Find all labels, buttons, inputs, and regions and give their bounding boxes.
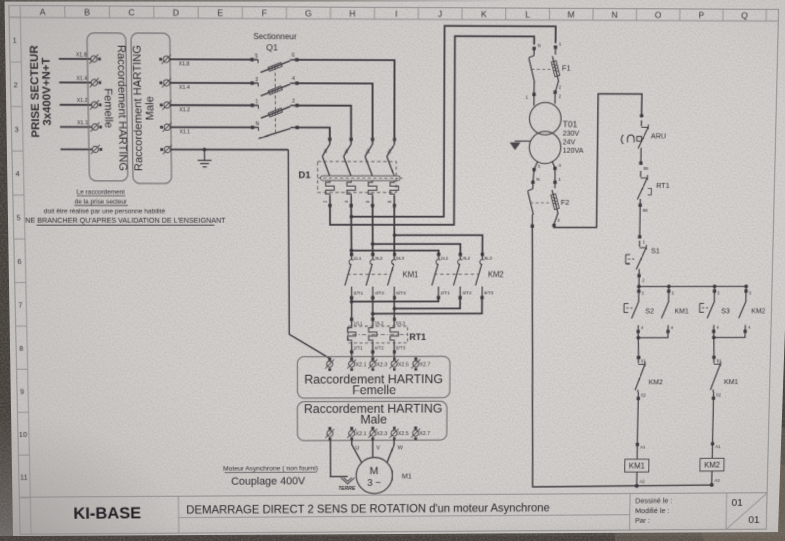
- svg-text:X1.4: X1.4: [76, 76, 87, 82]
- svg-text:X1.2: X1.2: [179, 107, 190, 113]
- wire male box to Q1 pole 4: [170, 126, 252, 128]
- svg-text:1: 1: [526, 95, 529, 101]
- contactor KM1 pole 1: [350, 253, 353, 256]
- ground TERRE symbol: [341, 478, 355, 484]
- svg-text:5/L3: 5/L3: [396, 321, 405, 327]
- contact KM2 NC interlock: [637, 356, 640, 359]
- svg-text:X2.1: X2.1: [355, 362, 366, 368]
- wire control rail branches: [637, 285, 641, 289]
- wire KM2 2/T1 join KM1 pole1: [350, 300, 354, 304]
- svg-text:X2.3: X2.3: [376, 432, 387, 438]
- svg-text:6/T3: 6/T3: [396, 290, 406, 296]
- svg-text:2/T1: 2/T1: [353, 346, 363, 352]
- svg-text:A2: A2: [639, 479, 645, 485]
- svg-text:B: B: [84, 7, 90, 17]
- svg-text:1: 1: [559, 42, 562, 48]
- svg-text:A1: A1: [715, 444, 721, 450]
- wire S2/KM1 merge: [638, 331, 668, 337]
- connector X2 HARTING femelle: [297, 356, 450, 398]
- contactor KM1 pole 3: [393, 253, 396, 256]
- breaker D1 pole 3 thermal element and output: [368, 181, 377, 196]
- svg-text:6: 6: [365, 200, 371, 203]
- contactor KM2 pole 3: [481, 253, 484, 256]
- wire Q1 pole N output to D1: [297, 127, 330, 137]
- wire V phase to motor: [372, 439, 374, 458]
- svg-text:2: 2: [558, 94, 561, 100]
- wire PE down-run to bottom connector: [288, 150, 329, 360]
- svg-text:3: 3: [717, 291, 720, 296]
- svg-text:2: 2: [13, 80, 17, 89]
- svg-text:DEMARRAGE DIRECT 2 SENS DE ROT: DEMARRAGE DIRECT 2 SENS DE ROTATION d'un…: [186, 501, 550, 516]
- svg-text:1L1: 1L1: [354, 256, 362, 262]
- svg-text:4: 4: [15, 169, 20, 178]
- svg-text:NE BRANCHER QU'APRES VALIDATIO: NE BRANCHER QU'APRES VALIDATION DE L'ENS…: [25, 216, 226, 225]
- wire KM1 output 340 to RT1: [351, 298, 353, 320]
- svg-text:Male: Male: [144, 96, 156, 120]
- svg-text:4: 4: [671, 325, 674, 330]
- coil KM1: [636, 398, 639, 444]
- contact KM1 aux hold: [668, 291, 670, 301]
- breaker D1 pole 1 input: [328, 137, 331, 140]
- svg-text:M: M: [568, 9, 575, 19]
- connector X1 HARTING femelle: [87, 33, 128, 181]
- svg-text:X1.4: X1.4: [179, 85, 190, 91]
- svg-text:ARU: ARU: [651, 131, 666, 140]
- svg-text:X2.7: X2.7: [419, 431, 430, 437]
- wire transformer secondary: [534, 162, 537, 169]
- svg-text:10: 10: [19, 430, 27, 439]
- svg-text:4: 4: [748, 325, 751, 330]
- svg-text:4: 4: [716, 325, 719, 330]
- wire left rail N: [530, 226, 719, 487]
- connector X1 HARTING male: [131, 33, 172, 184]
- node title block: [19, 493, 768, 497]
- contactor KM2 pole 1: [437, 253, 440, 256]
- svg-text:N: N: [611, 10, 617, 20]
- svg-text:6: 6: [17, 257, 21, 266]
- wire phase C feed KM1/KM2: [393, 206, 395, 236]
- svg-text:9: 9: [20, 387, 24, 396]
- button S2 start KM1: [638, 291, 640, 301]
- svg-text:Q: Q: [741, 10, 748, 20]
- svg-text:P: P: [698, 10, 704, 20]
- svg-text:KM1: KM1: [629, 462, 645, 471]
- svg-text:62: 62: [641, 393, 646, 398]
- contact KM2 aux hold: [745, 291, 747, 301]
- svg-text:KM1: KM1: [724, 377, 738, 386]
- svg-text:2: 2: [642, 278, 645, 284]
- svg-text:E: E: [217, 8, 223, 18]
- svg-text:X2.5: X2.5: [398, 431, 409, 437]
- wire Q1 pole 5 output to D1: [297, 60, 395, 138]
- svg-text:4: 4: [641, 325, 644, 330]
- svg-text:F1: F1: [562, 64, 571, 73]
- svg-text:3/L2: 3/L2: [375, 321, 384, 327]
- contact KM1 NC interlock: [712, 356, 715, 359]
- svg-text:S3: S3: [721, 306, 730, 315]
- wire mains lead 2: [59, 81, 91, 83]
- svg-text:W: W: [397, 445, 403, 451]
- svg-text:U: U: [355, 446, 359, 452]
- svg-text:de la prise secteur: de la prise secteur: [75, 199, 128, 206]
- svg-text:2: 2: [559, 85, 562, 91]
- transformer T01: [533, 94, 535, 105]
- svg-text:1/L1: 1/L1: [353, 321, 362, 327]
- svg-text:KM2: KM2: [704, 461, 720, 470]
- switch Q1 pole 3: [250, 81, 253, 84]
- breaker D1 pole 2 thermal element and output: [347, 181, 356, 196]
- relay RT1 dashed outline: [348, 326, 407, 343]
- svg-text:Sectionneur: Sectionneur: [253, 31, 297, 41]
- svg-text:Dessiné le :: Dessiné le :: [635, 496, 672, 505]
- coil KM2: [712, 398, 715, 444]
- breaker D1 pole 1 thermal element and output: [326, 180, 335, 195]
- wire male box to Q1 pole 2: [170, 82, 252, 84]
- svg-text:M1: M1: [402, 472, 412, 481]
- svg-text:01: 01: [748, 515, 759, 526]
- relay contact RT1 (95-96): [639, 161, 642, 164]
- ground transformer earth: [515, 140, 531, 142]
- svg-text:D: D: [173, 7, 179, 17]
- svg-text:KM2: KM2: [649, 378, 663, 387]
- svg-text:J: J: [438, 9, 442, 19]
- wire KM1 output 361 to RT1: [372, 298, 374, 320]
- wire mains lead 1: [59, 58, 91, 60]
- wire phase to control transformer: [350, 206, 352, 217]
- button ARU emergency stop: [640, 114, 644, 118]
- svg-text:I: I: [395, 9, 397, 19]
- wire KM2 4/T2 join KM1 pole3: [392, 307, 396, 311]
- svg-text:01: 01: [731, 497, 742, 508]
- svg-text:Femelle: Femelle: [102, 88, 114, 128]
- svg-text:X1.8: X1.8: [76, 52, 87, 58]
- svg-text:2: 2: [292, 98, 295, 104]
- wire F2 output riser to ARU: [554, 94, 642, 228]
- svg-text:X2.3: X2.3: [376, 362, 387, 368]
- svg-text:1: 1: [255, 99, 258, 105]
- svg-text:4: 4: [558, 163, 561, 169]
- fuse F1: [532, 47, 535, 50]
- svg-text:6/T3: 6/T3: [484, 290, 494, 296]
- svg-text:95: 95: [643, 166, 648, 171]
- svg-text:4/T2: 4/T2: [462, 290, 472, 296]
- svg-text:62: 62: [716, 392, 721, 397]
- svg-text:O: O: [655, 10, 662, 20]
- wire Q1 pole 1 output to D1: [297, 105, 351, 137]
- contactor KM2 pole 2: [459, 253, 462, 256]
- svg-text:8: 8: [387, 200, 393, 203]
- svg-text:T01: T01: [563, 119, 578, 129]
- svg-text:3 ~: 3 ~: [367, 478, 381, 488]
- wire U phase to motor: [352, 439, 362, 463]
- svg-text:5: 5: [255, 53, 258, 59]
- svg-text:N: N: [255, 121, 259, 127]
- svg-text:K: K: [481, 9, 487, 19]
- svg-text:3L2: 3L2: [462, 256, 470, 262]
- svg-text:3: 3: [671, 291, 674, 296]
- svg-text:KM2: KM2: [751, 307, 765, 315]
- contactor KM1 linkage dashes: [347, 273, 391, 275]
- svg-text:doit être réalisé par une pers: doit être réalisé par une personne habil…: [44, 208, 166, 215]
- connector X2 HARTING male: [297, 401, 447, 441]
- svg-text:D1: D1: [299, 170, 312, 181]
- svg-text:96: 96: [643, 208, 648, 213]
- wire mains lead 5: [60, 148, 92, 150]
- svg-text:2: 2: [557, 218, 560, 224]
- svg-text:RT1: RT1: [409, 332, 426, 342]
- svg-text:V: V: [376, 445, 380, 451]
- svg-text:1: 1: [558, 177, 561, 183]
- svg-text:Couplage 400V: Couplage 400V: [231, 476, 306, 488]
- svg-text:C: C: [128, 7, 135, 17]
- svg-text:X2.7: X2.7: [420, 362, 431, 368]
- breaker D1 dashed outline: [318, 162, 397, 193]
- svg-text:3: 3: [255, 77, 258, 83]
- svg-text:2/T1: 2/T1: [440, 290, 450, 296]
- svg-text:1: 1: [643, 239, 646, 245]
- switch Q1 pole 5: [250, 58, 253, 61]
- svg-text:X1.8: X1.8: [179, 62, 190, 68]
- svg-text:S2: S2: [645, 307, 654, 316]
- svg-text:KI-BASE: KI-BASE: [73, 503, 141, 522]
- breaker D1 linkage bar: [320, 176, 400, 181]
- contactor KM1 pole 2: [371, 253, 374, 256]
- svg-text:Le raccordement: Le raccordement: [77, 189, 125, 196]
- svg-text:Modifié le :: Modifié le :: [635, 506, 669, 515]
- svg-text:5L3: 5L3: [396, 256, 404, 262]
- svg-text:X1.2: X1.2: [77, 98, 88, 104]
- svg-text:N: N: [537, 43, 541, 49]
- svg-text:5: 5: [16, 213, 20, 222]
- svg-text:7: 7: [18, 301, 22, 310]
- wire KM1 output 383 to RT1: [393, 298, 395, 320]
- svg-text:KM1: KM1: [675, 307, 689, 315]
- wire Q1 interlock dashed link: [274, 67, 276, 136]
- svg-text:8: 8: [19, 344, 23, 353]
- svg-text:S1: S1: [651, 246, 660, 255]
- svg-text:4: 4: [344, 200, 350, 203]
- wire phase B feed KM1/KM2: [372, 206, 374, 244]
- svg-text:3: 3: [641, 291, 644, 296]
- svg-text:KM2: KM2: [488, 270, 504, 279]
- motor M1: [356, 457, 392, 493]
- svg-text:A1: A1: [640, 445, 646, 451]
- svg-text:X1.1: X1.1: [179, 130, 190, 136]
- svg-text:4: 4: [292, 76, 295, 82]
- wire S3/KM2 merge: [714, 331, 745, 337]
- svg-text:3: 3: [749, 291, 752, 296]
- svg-text:Par :: Par :: [635, 516, 650, 525]
- svg-text:H: H: [349, 8, 355, 18]
- svg-text:L: L: [525, 9, 530, 19]
- svg-text:6/T3: 6/T3: [396, 346, 406, 352]
- wire phase A feed KM1/KM2: [350, 217, 352, 251]
- svg-text:6: 6: [292, 53, 295, 59]
- svg-text:120VA: 120VA: [563, 146, 584, 155]
- svg-text:X1.1: X1.1: [77, 120, 88, 126]
- svg-text:1L1: 1L1: [441, 256, 449, 262]
- svg-text:3: 3: [14, 125, 18, 134]
- svg-text:Raccordement HARTING: Raccordement HARTING: [132, 45, 145, 171]
- svg-text:A2: A2: [714, 478, 720, 484]
- svg-text:1: 1: [13, 36, 17, 45]
- switch Q1 pole N: [251, 126, 254, 129]
- fuse F2: [531, 181, 534, 184]
- svg-text:2/T1: 2/T1: [354, 290, 364, 296]
- svg-text:X2.1: X2.1: [355, 432, 366, 438]
- switch Q1 pole 1: [251, 104, 254, 107]
- breaker D1 pole 4 input: [393, 138, 396, 141]
- wire W phase to motor: [387, 439, 394, 463]
- breaker D1 pole 3 input: [371, 138, 374, 141]
- svg-text:Q1: Q1: [266, 42, 278, 52]
- svg-text:F2: F2: [561, 198, 570, 207]
- svg-text:24V: 24V: [563, 137, 576, 146]
- button S1 stop: [638, 235, 641, 238]
- svg-text:3: 3: [537, 164, 540, 170]
- svg-text:4/T2: 4/T2: [375, 346, 385, 352]
- wire male box to Q1 pole 1: [169, 58, 252, 60]
- svg-text:TERRE: TERRE: [338, 486, 356, 492]
- wire mains lead 4: [60, 126, 92, 128]
- breaker D1 pole 4 thermal element and output: [390, 181, 399, 196]
- wire mains lead 3: [60, 104, 92, 106]
- svg-text:3x400V+N+T: 3x400V+N+T: [41, 57, 54, 125]
- svg-text:A: A: [40, 7, 46, 17]
- wire neutral to control transformer: [330, 36, 535, 225]
- svg-text:Raccordement HARTING: Raccordement HARTING: [115, 45, 129, 171]
- wire PE lead to ground: [170, 149, 288, 151]
- svg-text:Femelle: Femelle: [352, 383, 396, 397]
- svg-text:N: N: [536, 177, 540, 183]
- button S3 start KM2: [713, 291, 715, 301]
- breaker D1 pole 2 input: [349, 138, 352, 141]
- svg-text:F: F: [262, 8, 268, 18]
- contactor KM2 linkage dashes: [434, 273, 479, 275]
- wire male box to Q1 pole 3: [170, 104, 252, 106]
- svg-text:2: 2: [323, 200, 329, 203]
- svg-text:Moteur Asynchrone ( non fourni: Moteur Asynchrone ( non fourni): [223, 465, 318, 472]
- svg-text:Male: Male: [360, 412, 387, 426]
- svg-text:X2.5: X2.5: [398, 362, 409, 368]
- wire PE to TERRE: [330, 439, 347, 477]
- svg-text:M: M: [369, 465, 378, 476]
- svg-text:RT1: RT1: [656, 181, 670, 190]
- wire KM2 6/T3 join KM1 pole2: [371, 312, 375, 316]
- svg-text:11: 11: [20, 473, 28, 482]
- svg-text:5L3: 5L3: [484, 256, 492, 262]
- svg-text:KM1: KM1: [403, 270, 419, 279]
- svg-text:4/T2: 4/T2: [375, 290, 385, 296]
- ground PE earth symbol: [203, 148, 207, 152]
- svg-text:G: G: [305, 8, 312, 18]
- wire Q1 pole 3 output to D1: [297, 83, 373, 137]
- svg-text:3L2: 3L2: [375, 256, 383, 262]
